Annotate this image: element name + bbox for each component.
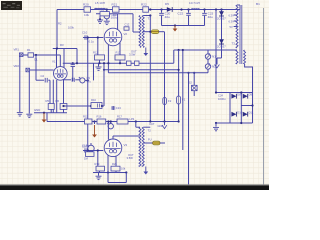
diode D11 — [243, 112, 248, 117]
wire V1 pin — [52, 80, 54, 113]
node — [87, 79, 89, 81]
electrolytic capacitor C9 — [79, 77, 85, 83]
node — [103, 69, 105, 71]
power port — [215, 58, 220, 68]
node — [160, 8, 162, 10]
power port — [143, 167, 148, 175]
svg-text:L5 10H: L5 10H — [95, 1, 105, 5]
node — [43, 112, 45, 114]
power port GND — [173, 26, 178, 32]
wire V3 cathode — [115, 156, 117, 166]
wire — [63, 109, 65, 112]
wire — [188, 16, 190, 26]
electrolytic capacitor C16 — [87, 145, 94, 152]
resistor R10 — [91, 103, 102, 109]
svg-text:40u: 40u — [208, 15, 213, 19]
fuse FU4 — [163, 98, 167, 105]
resistor R13 — [115, 55, 125, 60]
diode D10 — [231, 112, 236, 117]
svg-text:R13: R13 — [116, 51, 121, 55]
resistor R16 — [97, 119, 106, 124]
wire — [67, 105, 91, 107]
svg-text:10.7mH: 10.7mH — [189, 1, 200, 5]
wire — [216, 58, 218, 64]
node — [182, 49, 184, 51]
wire — [143, 126, 150, 128]
resistor R17 — [117, 119, 128, 124]
node — [119, 62, 121, 64]
winding T1 primary — [139, 16, 141, 48]
svg-text:R16: R16 — [97, 115, 102, 119]
node — [203, 8, 205, 10]
node — [187, 8, 189, 10]
transformer core line 1 — [239, 5, 241, 64]
vacuum tube V2 — [104, 28, 122, 46]
svg-text:T3: T3 — [232, 42, 236, 46]
winding T2 primary — [139, 127, 141, 166]
capacitor C13 — [111, 107, 115, 109]
wire — [99, 60, 101, 63]
power port GND 3 — [92, 125, 97, 138]
zener diode D6 — [219, 11, 224, 16]
ground — [96, 67, 102, 70]
capacitor C12 — [124, 27, 129, 30]
capacitor C22 — [186, 13, 191, 15]
node — [87, 36, 89, 38]
winding T1 secondary — [142, 16, 144, 48]
wire — [132, 14, 134, 32]
wire — [161, 16, 163, 26]
svg-text:OUT: OUT — [149, 122, 155, 126]
wire bridge bottom — [216, 122, 253, 124]
svg-text:5V: 5V — [230, 25, 233, 29]
vacuum tube V3 — [104, 139, 122, 157]
wire B+ rail — [57, 9, 240, 11]
inductor L6 — [191, 9, 199, 10]
svg-text:R19: R19 — [95, 162, 100, 166]
svg-text:VR2: VR2 — [14, 64, 20, 68]
transformer core line 2 — [241, 5, 243, 64]
wire — [110, 122, 112, 124]
svg-text:OUT: OUT — [128, 153, 134, 157]
svg-text:C18: C18 — [82, 143, 88, 147]
svg-text:R1: R1 — [27, 48, 31, 52]
wire — [50, 109, 52, 112]
wire B+ drop left — [56, 10, 58, 49]
capacitor C10 — [85, 35, 87, 40]
fuse FU3 — [177, 96, 181, 104]
node cap tap — [106, 8, 108, 10]
wire — [188, 10, 190, 13]
wire V1 pin — [56, 49, 58, 68]
resistor R24 — [111, 166, 120, 171]
wire — [64, 105, 92, 107]
svg-text:T2: T2 — [148, 128, 152, 132]
wire — [133, 31, 140, 33]
svg-text:V1: V1 — [52, 60, 56, 64]
wire zener string — [221, 10, 223, 59]
capacitor C11 — [135, 61, 140, 65]
svg-text:R22: R22 — [141, 2, 147, 6]
sheet border right edge — [263, 8, 265, 185]
svg-text:D10: D10 — [237, 110, 242, 114]
capacitor C4b — [72, 78, 74, 82]
wire — [207, 50, 209, 54]
wire — [48, 79, 50, 81]
node — [99, 18, 101, 20]
node — [215, 122, 217, 124]
wire input 2 — [30, 69, 54, 71]
wire phase split — [87, 38, 89, 151]
node — [97, 149, 99, 151]
wire screen rail — [47, 121, 178, 123]
neon lamp N2 — [205, 63, 210, 69]
capacitor C18 — [85, 148, 87, 153]
wire — [72, 62, 74, 65]
wire — [103, 63, 105, 106]
power port GND 2 — [42, 113, 47, 123]
wire — [237, 4, 240, 6]
svg-text:N2: N2 — [212, 65, 216, 69]
wire grid feed — [36, 79, 44, 81]
wire — [106, 10, 108, 14]
wire — [136, 126, 140, 128]
svg-text:D9: D9 — [249, 92, 253, 96]
wire — [204, 10, 206, 13]
wire — [239, 5, 241, 10]
resistor R11 — [100, 12, 109, 16]
svg-text:V2: V2 — [124, 32, 128, 36]
svg-text:R24: R24 — [112, 162, 117, 166]
wire — [76, 49, 78, 64]
wire — [113, 135, 140, 137]
svg-text:100u: 100u — [111, 16, 118, 20]
wire — [160, 142, 165, 144]
node — [98, 62, 100, 64]
wire — [143, 142, 152, 144]
node — [107, 62, 109, 64]
power port — [162, 125, 167, 128]
wire — [244, 49, 246, 51]
wire — [107, 122, 109, 140]
svg-text:F1: F1 — [182, 98, 186, 102]
wire — [204, 16, 206, 26]
wire — [161, 10, 163, 13]
svg-text:3.5W: 3.5W — [127, 156, 134, 160]
resistor R22 — [143, 7, 149, 12]
wire V2 plate — [117, 14, 119, 30]
node — [72, 62, 74, 64]
wire — [207, 59, 209, 64]
wire V1 pin — [56, 80, 58, 113]
resistor R18 — [86, 152, 95, 157]
wire link upper — [104, 69, 179, 71]
node — [149, 31, 151, 33]
node — [87, 149, 89, 151]
inductor L5 — [95, 8, 106, 9]
wire — [99, 171, 101, 173]
node — [35, 54, 37, 56]
wire tap — [234, 20, 237, 22]
svg-text:6.3V: 6.3V — [229, 13, 235, 17]
node — [163, 120, 165, 122]
wire — [215, 123, 217, 127]
wire cord 2 — [188, 73, 190, 185]
lamp S2 — [192, 85, 198, 90]
wire — [149, 16, 151, 122]
svg-text:10k: 10k — [84, 13, 89, 17]
wire — [143, 31, 151, 33]
svg-text:R5: R5 — [46, 99, 50, 103]
svg-text:R10: R10 — [91, 98, 96, 102]
wire output common — [164, 32, 166, 122]
wire — [119, 60, 121, 63]
wire mains live — [174, 49, 237, 51]
neon lamp N1 — [205, 53, 210, 59]
capacitor C2 — [45, 78, 47, 83]
wire — [164, 122, 166, 126]
wire V3 plate — [112, 136, 114, 139]
power port — [143, 48, 148, 57]
wire to bridge — [245, 64, 253, 93]
svg-text:R15: R15 — [83, 115, 88, 119]
node — [149, 8, 151, 10]
resistor R14 — [127, 61, 132, 65]
electrolytic capacitor C14 — [107, 123, 114, 129]
wire cord — [182, 50, 184, 150]
wire — [98, 63, 100, 66]
node — [174, 24, 176, 26]
wire return 1 — [19, 57, 21, 113]
winding T3 primary lower — [244, 50, 246, 64]
node — [220, 8, 222, 10]
node — [178, 49, 180, 51]
wire tap — [234, 14, 237, 16]
node — [76, 62, 78, 64]
wire grid upper — [83, 37, 103, 39]
svg-text:R3: R3 — [60, 43, 64, 47]
resistor R15 — [85, 119, 93, 124]
wire ground rail — [162, 25, 205, 27]
node — [101, 105, 103, 107]
wire plate top — [96, 13, 133, 15]
wire plate rail — [53, 48, 77, 50]
wire — [193, 91, 195, 96]
resistor R20 — [84, 7, 91, 12]
svg-text:C12: C12 — [125, 23, 130, 27]
winding T3 secondary lower — [236, 50, 238, 64]
wire V1 cathode 2 — [63, 79, 65, 103]
wire — [99, 16, 101, 19]
node — [125, 171, 127, 173]
resistor R19 — [96, 166, 105, 171]
wire — [85, 79, 88, 81]
svg-text:F2: F2 — [168, 99, 172, 103]
svg-text:GND: GND — [34, 108, 40, 112]
wire — [207, 69, 209, 73]
svg-text:D8: D8 — [237, 92, 241, 96]
node — [178, 69, 180, 71]
wire — [112, 106, 114, 110]
wire — [143, 15, 150, 17]
wire — [94, 122, 96, 125]
node — [97, 36, 99, 38]
wire — [64, 79, 72, 81]
wire V2 cathode — [119, 43, 121, 55]
node — [90, 105, 92, 107]
svg-text:40u: 40u — [165, 15, 170, 19]
ground — [17, 113, 23, 116]
terminal VR2 — [26, 68, 30, 72]
node — [149, 120, 151, 122]
wire — [72, 67, 74, 81]
svg-text:FU: FU — [148, 138, 152, 142]
wire — [108, 182, 126, 184]
bottom scrollbar / border — [0, 184, 269, 185]
node — [215, 91, 217, 93]
electrolytic capacitor C21 — [103, 13, 110, 19]
diode D5 — [167, 7, 172, 12]
svg-text:6.3V: 6.3V — [229, 19, 235, 23]
terminal VR1 — [19, 53, 23, 57]
node — [251, 104, 253, 106]
fuse FU1 — [151, 30, 159, 34]
wire cathode rail — [63, 62, 174, 64]
wire grid leak — [97, 38, 99, 55]
ground — [97, 20, 103, 23]
wire — [90, 143, 92, 146]
node — [56, 47, 58, 49]
wire V1 pin — [59, 55, 61, 67]
svg-text:C10: C10 — [82, 30, 88, 34]
node — [240, 122, 242, 124]
wire bridge left — [229, 93, 231, 124]
node — [187, 72, 189, 74]
wire — [106, 19, 108, 21]
svg-text:C13: C13 — [116, 106, 121, 110]
svg-text:R6: R6 — [56, 99, 60, 103]
winding T2 secondary — [142, 127, 144, 166]
wire riser — [178, 50, 180, 122]
wire — [107, 45, 109, 63]
wire bridge top — [216, 92, 253, 94]
svg-text:LP3: LP3 — [130, 117, 135, 121]
resistor R6 — [60, 104, 67, 110]
svg-text:R17: R17 — [117, 115, 122, 119]
svg-text:R2: R2 — [58, 22, 62, 26]
ground — [104, 21, 110, 24]
svg-text:R21: R21 — [112, 2, 118, 6]
ground — [213, 127, 219, 130]
wire — [46, 113, 48, 122]
wire — [193, 73, 195, 86]
wire — [135, 122, 137, 128]
node — [62, 105, 64, 107]
node — [149, 14, 151, 16]
winding T3 secondary upper — [236, 5, 238, 48]
node — [193, 72, 195, 74]
ground — [96, 176, 102, 179]
wire — [107, 63, 109, 73]
wire — [102, 105, 104, 107]
svg-text:R12: R12 — [93, 51, 98, 55]
node — [240, 91, 242, 93]
wire — [93, 63, 95, 80]
svg-text:N1: N1 — [212, 55, 216, 59]
node — [93, 120, 95, 122]
wire grid leak — [97, 151, 99, 167]
wire tap — [234, 26, 237, 28]
wire — [173, 50, 175, 63]
wire gnd run — [34, 112, 67, 114]
node — [178, 120, 180, 122]
wire bridge mid — [240, 93, 242, 124]
node — [215, 8, 217, 10]
wire — [159, 31, 165, 33]
node — [103, 62, 105, 64]
svg-text:S2: S2 — [189, 81, 193, 85]
wire return 2 — [28, 72, 30, 114]
svg-text:C24: C24 — [218, 94, 223, 98]
node — [107, 120, 109, 122]
svg-text:C22: C22 — [178, 12, 184, 16]
capacitor C4 — [71, 65, 75, 67]
resistor R12 — [95, 55, 105, 60]
svg-text:T1: T1 — [148, 17, 152, 21]
svg-text:D11: D11 — [249, 110, 254, 114]
svg-text:2CW57: 2CW57 — [217, 16, 226, 20]
wire — [217, 57, 222, 59]
wire — [125, 173, 127, 183]
vacuum tube V1 — [54, 67, 68, 81]
capacitor C20 — [159, 13, 164, 15]
svg-text:0.1u: 0.1u — [89, 39, 95, 43]
wire link lower — [108, 72, 208, 74]
wire — [107, 173, 109, 183]
svg-text:VR1: VR1 — [14, 48, 20, 52]
node — [107, 171, 109, 173]
svg-text:B1: B1 — [256, 2, 260, 6]
resistor R21 — [113, 7, 120, 12]
wire bridge mid h — [241, 105, 252, 107]
wire — [115, 171, 117, 173]
svg-text:R20: R20 — [83, 2, 89, 6]
node — [135, 120, 137, 122]
svg-text:1000u: 1000u — [218, 97, 226, 101]
svg-text:D5: D5 — [165, 2, 169, 6]
wire bridge right — [252, 93, 254, 124]
svg-text:R11: R11 — [99, 7, 104, 11]
wire — [35, 55, 37, 80]
resistor R1 — [28, 53, 34, 57]
wire — [98, 173, 100, 176]
svg-text:2CW57: 2CW57 — [217, 45, 226, 49]
capacitor C23 — [202, 13, 207, 15]
fuse FU2 — [153, 141, 161, 145]
wire V1 cathode 1 — [49, 80, 51, 103]
zener diode D7 — [219, 39, 224, 44]
ground — [26, 114, 32, 117]
diode D9 — [243, 94, 248, 99]
resistor R5 — [48, 104, 54, 110]
wire V1 pin — [63, 49, 65, 68]
node — [110, 120, 112, 122]
wire input 1 — [23, 54, 60, 56]
diode D8 — [231, 94, 236, 99]
wire B+ riser — [215, 10, 217, 93]
svg-text:V3: V3 — [124, 143, 128, 147]
svg-text:C2: C2 — [41, 74, 45, 78]
